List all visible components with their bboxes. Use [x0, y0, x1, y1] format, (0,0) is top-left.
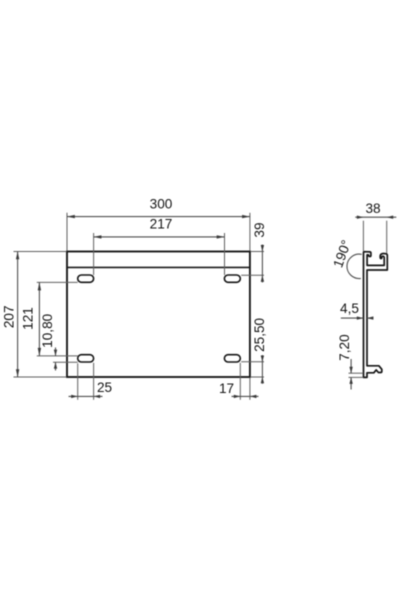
svg-text:17: 17 [219, 381, 234, 396]
svg-text:7,20: 7,20 [337, 334, 352, 361]
svg-text:121: 121 [21, 307, 36, 330]
svg-text:300: 300 [150, 197, 173, 212]
svg-text:10,80: 10,80 [40, 313, 55, 347]
svg-text:217: 217 [150, 217, 173, 232]
svg-text:190°: 190° [330, 238, 354, 270]
svg-text:25,50: 25,50 [252, 317, 267, 351]
svg-text:207: 207 [2, 305, 17, 328]
svg-text:25: 25 [97, 380, 112, 395]
svg-text:4,5: 4,5 [340, 301, 359, 316]
svg-text:38: 38 [365, 201, 380, 216]
svg-text:39: 39 [252, 222, 267, 237]
